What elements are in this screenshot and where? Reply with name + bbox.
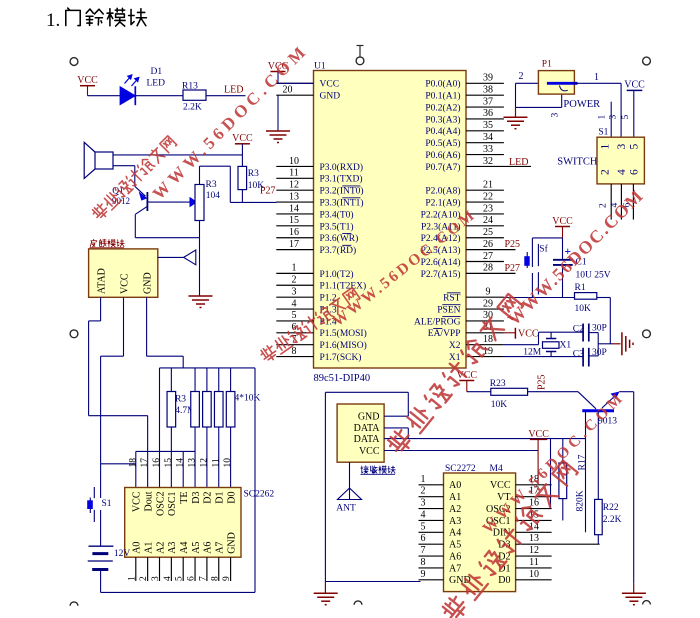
svg-text:A1: A1 bbox=[449, 492, 461, 503]
svg-text:PSEN: PSEN bbox=[437, 305, 460, 315]
VCC power symbol bbox=[459, 380, 474, 382]
U1 pin 3 P1.2 stub bbox=[276, 296, 313, 298]
SC2272 pin 13 D3 bbox=[516, 543, 600, 545]
svg-text:A5: A5 bbox=[449, 540, 461, 551]
svg-text:25: 25 bbox=[483, 227, 493, 238]
svg-text:13: 13 bbox=[188, 458, 198, 468]
SC2262 bottom pin 3 bbox=[159, 557, 161, 581]
wire VCC pin down bbox=[123, 297, 125, 356]
U1 pin 30 ALE/PROG stub bbox=[466, 320, 504, 322]
watermark 3 CN bbox=[386, 293, 524, 456]
wire right side of bus loop bbox=[254, 368, 256, 593]
svg-text:P0.2(A2): P0.2(A2) bbox=[425, 102, 460, 113]
SC2262 pin GND bbox=[226, 532, 237, 554]
watermark 1 WWW bbox=[149, 40, 312, 203]
svg-text:ATAD: ATAD bbox=[97, 268, 108, 294]
pin label 6 bbox=[623, 203, 633, 208]
svg-text:1: 1 bbox=[598, 115, 608, 120]
wire R1 right bbox=[597, 297, 611, 299]
svg-text:VCC: VCC bbox=[624, 79, 645, 90]
svg-text:VCC: VCC bbox=[552, 216, 573, 227]
wire col OSC2 bbox=[159, 368, 161, 488]
svg-text:ALE/PROG: ALE/PROG bbox=[414, 317, 461, 327]
U1 pin 24 P2.3(A11) stub bbox=[466, 225, 504, 227]
svg-text:VCC: VCC bbox=[528, 429, 549, 440]
svg-text:12M: 12M bbox=[523, 348, 542, 358]
svg-text:A0: A0 bbox=[449, 480, 461, 491]
marker ring bbox=[70, 602, 78, 606]
svg-text:SC2272: SC2272 bbox=[445, 464, 476, 474]
watermark 4 WWW bbox=[479, 388, 628, 537]
U1 pin 32 P0.7(A7) stub bbox=[466, 165, 531, 167]
wire VCC to R23 bbox=[467, 391, 491, 393]
svg-text:A6: A6 bbox=[449, 551, 461, 562]
SC2262 pin number 7 bbox=[198, 576, 208, 581]
diode D1 LED bbox=[120, 87, 135, 105]
SC2262 bottom pin 4 bbox=[170, 557, 172, 581]
svg-text:R22: R22 bbox=[603, 503, 619, 513]
connector P1 bbox=[538, 71, 574, 95]
svg-text:33: 33 bbox=[483, 144, 493, 155]
svg-text:X1: X1 bbox=[560, 341, 572, 351]
SC2262 pin VCC bbox=[132, 491, 143, 512]
svg-text:A3: A3 bbox=[449, 516, 461, 527]
wire pin20 to ground bbox=[277, 95, 279, 130]
SC2262 pin number 4 bbox=[163, 576, 173, 581]
crystal X1 bbox=[543, 342, 560, 349]
U1 pin 18 X2 stub bbox=[466, 344, 504, 346]
SC2262 bottom pin 6 bbox=[194, 557, 196, 581]
Q1 collector diagonal bbox=[135, 206, 147, 214]
marker ring bbox=[643, 601, 651, 605]
svg-text:7: 7 bbox=[421, 545, 426, 556]
svg-text:12: 12 bbox=[199, 458, 209, 468]
resistor R17 820K bbox=[562, 439, 564, 463]
svg-text:P2.1(A9): P2.1(A9) bbox=[425, 198, 460, 209]
svg-text:15: 15 bbox=[164, 458, 174, 468]
receive module box bbox=[337, 404, 384, 462]
U1 pin 22 P2.1(A9) stub bbox=[466, 201, 504, 203]
resistor R3 4.7M bbox=[170, 368, 172, 392]
SC2262 pin number 16 bbox=[152, 458, 162, 468]
SC2272 pin 8 A7 bbox=[419, 567, 444, 569]
SC2272 pin 4 A3 bbox=[419, 519, 444, 521]
svg-text:4*10K: 4*10K bbox=[235, 394, 261, 404]
svg-text:13: 13 bbox=[529, 533, 539, 544]
svg-text:GND: GND bbox=[358, 412, 380, 423]
wire X2 net bbox=[504, 344, 539, 346]
ground U1 GND pin20 bbox=[266, 131, 290, 143]
SC2262 pin number 9 bbox=[222, 576, 232, 581]
svg-text:U1: U1 bbox=[314, 62, 326, 72]
ground receive module bbox=[314, 593, 338, 605]
svg-text:P1.7(SCK): P1.7(SCK) bbox=[320, 352, 362, 363]
svg-text:P1: P1 bbox=[542, 60, 552, 70]
wire Q emitter to right rail bbox=[619, 391, 634, 393]
U1 pin 15 P3.5(T1) stub bbox=[276, 225, 313, 227]
wire emitter rail bbox=[135, 237, 199, 239]
U1 pin 1 P1.0(T2) stub bbox=[276, 272, 313, 274]
wire bottom to SC2272 GND bbox=[325, 581, 420, 583]
wire R13 to LED net bbox=[206, 95, 246, 97]
svg-text:A6: A6 bbox=[203, 542, 214, 554]
ground below Q1 bbox=[189, 296, 213, 308]
U1 pin 23 P2.2(A10) stub bbox=[466, 213, 504, 215]
svg-text:D0: D0 bbox=[226, 492, 237, 504]
svg-text:VCC: VCC bbox=[359, 446, 380, 457]
antenna ANT bbox=[349, 462, 351, 499]
wire DATA to VT/OSC2 bbox=[550, 439, 552, 509]
svg-text:9: 9 bbox=[486, 286, 491, 297]
LED arrows bbox=[125, 75, 139, 86]
pin label 4 bbox=[610, 203, 620, 208]
SC2262 pin A4 bbox=[179, 542, 190, 554]
svg-text:S1: S1 bbox=[102, 499, 112, 509]
svg-text:P3.0(RXD): P3.0(RXD) bbox=[320, 162, 364, 173]
svg-text:10: 10 bbox=[529, 569, 539, 580]
capacitor C2 bbox=[582, 324, 584, 342]
marker ring bbox=[70, 58, 78, 66]
svg-text:2: 2 bbox=[292, 275, 297, 286]
SC2262 pin number 3 bbox=[151, 576, 161, 581]
svg-text:15: 15 bbox=[289, 215, 299, 226]
svg-text:37: 37 bbox=[483, 96, 493, 107]
svg-text:4: 4 bbox=[292, 298, 297, 309]
svg-text:1.: 1. bbox=[46, 10, 60, 31]
wire R17 to OSC1 bbox=[562, 499, 564, 521]
svg-text:13: 13 bbox=[289, 191, 299, 202]
wire battery minus bbox=[100, 570, 102, 593]
S1 pin 1 bbox=[600, 144, 612, 150]
SC2272 pin 10 D0 bbox=[516, 579, 552, 581]
svg-text:LED: LED bbox=[224, 85, 243, 96]
watermark 1 CN bbox=[91, 135, 177, 221]
watermark 4 CN bbox=[440, 460, 578, 618]
svg-text:30: 30 bbox=[483, 310, 493, 321]
VCC power symbol bbox=[235, 143, 250, 145]
svg-text:6: 6 bbox=[421, 533, 426, 544]
transmit module box bbox=[89, 249, 158, 297]
arrow into R3 104 bbox=[190, 197, 198, 208]
svg-text:5: 5 bbox=[621, 115, 631, 120]
wire RST row bbox=[504, 297, 575, 299]
svg-text:EA/VPP: EA/VPP bbox=[428, 329, 461, 339]
svg-text:104: 104 bbox=[206, 191, 221, 201]
svg-text:Dout: Dout bbox=[143, 491, 154, 511]
U1 pin 7 P1.6(MISO) stub bbox=[276, 344, 313, 346]
wire VCC to S1 pin5 bbox=[633, 90, 635, 137]
svg-text:16: 16 bbox=[152, 458, 162, 468]
svg-text:SWITCH: SWITCH bbox=[557, 156, 598, 167]
SC2272 pin 12 D2 bbox=[516, 555, 552, 557]
wire Q1 base to R3 bbox=[147, 201, 190, 203]
svg-text:SC2262: SC2262 bbox=[244, 490, 275, 500]
pin label 1 bbox=[598, 115, 608, 120]
svg-text:GND: GND bbox=[320, 92, 341, 102]
wire to side ground bbox=[598, 343, 612, 345]
svg-text:36: 36 bbox=[483, 108, 493, 119]
svg-text:10: 10 bbox=[289, 156, 299, 167]
transistor Q 9013 bbox=[578, 392, 596, 409]
svg-text:P0.4(A4): P0.4(A4) bbox=[425, 126, 460, 137]
U1 pin 25 P2.4(A12) stub bbox=[466, 237, 504, 239]
SC2262 pin OSC2 bbox=[155, 492, 166, 516]
svg-text:5: 5 bbox=[175, 576, 185, 581]
svg-text:34: 34 bbox=[483, 132, 493, 143]
svg-text:P3.2(INT0): P3.2(INT0) bbox=[320, 186, 364, 197]
SC2272 pin 14 DIN bbox=[516, 531, 552, 533]
svg-text:P1.5(MOSI): P1.5(MOSI) bbox=[320, 328, 367, 339]
SC2262 pin TE bbox=[179, 492, 190, 504]
svg-text:A4: A4 bbox=[179, 542, 190, 554]
svg-text:P3.1(TXD): P3.1(TXD) bbox=[320, 174, 363, 185]
SC2262 pin number 15 bbox=[164, 458, 174, 468]
net label P25 rotated bbox=[537, 374, 548, 390]
SC2262 pin Dout bbox=[143, 491, 154, 511]
overline bbox=[342, 185, 360, 187]
svg-text:9: 9 bbox=[222, 576, 232, 581]
SC2262 pin A2 bbox=[155, 542, 166, 554]
transistor Q1 bbox=[135, 186, 146, 196]
svg-text:38: 38 bbox=[483, 84, 493, 95]
svg-text:21: 21 bbox=[483, 180, 493, 191]
overline bbox=[342, 232, 351, 234]
watermark 3 WWW bbox=[504, 185, 648, 329]
wire to U1 pin13 bbox=[230, 201, 276, 203]
wire speaker bottom bbox=[113, 165, 135, 167]
svg-text:D2: D2 bbox=[203, 492, 214, 504]
capacitor C3 bbox=[582, 348, 584, 367]
svg-text:P3.7(RD): P3.7(RD) bbox=[320, 245, 357, 256]
label 发射模块 transmit module bbox=[90, 239, 96, 247]
svg-text:20: 20 bbox=[283, 84, 293, 95]
wire col14 TE bbox=[182, 451, 184, 487]
SC2262 pin number 18 bbox=[128, 458, 138, 468]
U1 pin 29 PSEN stub bbox=[466, 308, 504, 310]
SC2262 bottom pin 1 bbox=[135, 557, 137, 581]
svg-text:R3: R3 bbox=[175, 395, 186, 405]
wire GND pin down bbox=[146, 297, 148, 356]
wire down to S1 switch bbox=[620, 83, 622, 137]
svg-text:2: 2 bbox=[599, 203, 609, 208]
svg-text:12: 12 bbox=[529, 545, 539, 556]
svg-text:1: 1 bbox=[594, 72, 599, 83]
SC2262 bottom pin 2 bbox=[147, 557, 149, 581]
svg-text:P2.7(A15): P2.7(A15) bbox=[421, 269, 461, 280]
SC2262 pin number 12 bbox=[199, 458, 209, 468]
U1 pin 10 P3.0(RXD) stub bbox=[276, 165, 313, 167]
SC2272 pin 16 OSC2 bbox=[516, 508, 552, 510]
S1 connection wire bbox=[101, 463, 136, 465]
R17 value bbox=[576, 490, 586, 511]
SC2262 pin D1 bbox=[215, 492, 226, 504]
svg-text:1: 1 bbox=[421, 474, 426, 485]
VCC power symbol bbox=[555, 226, 570, 228]
svg-text:2: 2 bbox=[519, 71, 524, 82]
U1 pin 28 P2.7(A15) stub bbox=[466, 272, 516, 274]
svg-text:A0: A0 bbox=[132, 542, 143, 554]
wire col17 Dout bbox=[147, 416, 149, 488]
R17 designator bbox=[578, 454, 588, 470]
ground sideways bbox=[613, 343, 621, 345]
S1 pin 3 bbox=[616, 144, 628, 150]
svg-text:A2: A2 bbox=[449, 504, 461, 515]
resistor R3 104 bbox=[195, 185, 204, 221]
svg-text:27: 27 bbox=[483, 251, 493, 262]
SC2262 pin number 6 bbox=[187, 576, 197, 581]
U1 pin 38 P0.1(A1) stub bbox=[466, 94, 504, 96]
SC2272 decoder chip bbox=[444, 473, 516, 592]
SC2262 pin A3 bbox=[167, 542, 178, 554]
svg-text:P1.0(T2): P1.0(T2) bbox=[320, 269, 354, 280]
wire R22 to D3 bbox=[597, 535, 599, 545]
svg-text:TE: TE bbox=[179, 492, 190, 504]
svg-text:R13: R13 bbox=[182, 81, 198, 91]
svg-text:10U 25V: 10U 25V bbox=[576, 271, 611, 281]
marker ring bbox=[70, 330, 78, 338]
wire speaker top to VCC node bbox=[113, 154, 242, 156]
svg-text:A4: A4 bbox=[449, 528, 461, 539]
svg-text:P1.6(MISO): P1.6(MISO) bbox=[320, 340, 367, 351]
svg-text:M4: M4 bbox=[490, 464, 503, 474]
svg-text:14: 14 bbox=[289, 203, 299, 214]
svg-text:22: 22 bbox=[483, 191, 493, 202]
svg-text:Sf: Sf bbox=[539, 244, 548, 255]
resistor R23 bbox=[491, 388, 528, 395]
svg-text:R3: R3 bbox=[248, 169, 259, 179]
switch S1 bbox=[100, 464, 102, 498]
svg-text:P3.3(INT1): P3.3(INT1) bbox=[320, 198, 364, 209]
wire left rail down bbox=[324, 392, 326, 581]
resistor 10K col5 bbox=[191, 392, 200, 428]
svg-text:6: 6 bbox=[187, 576, 197, 581]
watermark 2 WWW bbox=[330, 206, 480, 330]
svg-text:R23: R23 bbox=[490, 379, 506, 389]
wire TE col bbox=[136, 450, 195, 452]
S1 pin 2 bbox=[600, 169, 612, 175]
svg-text:C3: C3 bbox=[573, 350, 584, 360]
resistor R22 2.2K bbox=[595, 499, 603, 534]
marker ring bbox=[356, 57, 364, 65]
U1 pin 35 P0.4(A4) stub bbox=[466, 130, 504, 132]
marker ring bbox=[643, 330, 651, 338]
SC2262 bottom pin 7 bbox=[206, 557, 208, 581]
SC2262 encoder chip bbox=[125, 488, 241, 558]
watermark 2 CN bbox=[259, 287, 360, 364]
svg-text:P25: P25 bbox=[505, 239, 521, 250]
svg-text:17: 17 bbox=[289, 239, 299, 250]
marker ring bbox=[643, 57, 651, 65]
underline bbox=[90, 247, 125, 249]
svg-text:26: 26 bbox=[483, 239, 493, 250]
SC2262 pin number 10 bbox=[223, 458, 233, 468]
SC2262 bottom pin 9 bbox=[230, 557, 232, 581]
S1 pin 5 bbox=[629, 144, 641, 150]
overline bbox=[442, 304, 460, 306]
wire VCC to pin40 bbox=[276, 82, 313, 84]
VCC power symbol bbox=[271, 71, 286, 73]
svg-text:A3: A3 bbox=[167, 542, 178, 554]
svg-text:S1: S1 bbox=[598, 128, 608, 138]
wire to Q1 emitter bbox=[134, 166, 136, 187]
svg-text:11: 11 bbox=[211, 458, 221, 467]
svg-text:89c51-DIP40: 89c51-DIP40 bbox=[314, 373, 371, 384]
wire bottom rail bbox=[101, 591, 255, 593]
svg-text:24: 24 bbox=[483, 215, 493, 226]
svg-text:4: 4 bbox=[421, 509, 426, 520]
svg-text:C2: C2 bbox=[573, 325, 584, 335]
svg-text:P3.6(WR): P3.6(WR) bbox=[320, 233, 359, 244]
U1 pin 17 P3.7(RD) stub bbox=[276, 249, 313, 251]
SC2262 pin A5 bbox=[191, 542, 202, 554]
wire Q1 to emitter rail bbox=[134, 214, 136, 237]
wire R3 top bbox=[199, 166, 201, 184]
wire C1 bottom bbox=[562, 265, 564, 298]
bus wire GND net bbox=[160, 367, 256, 369]
svg-text:VCC: VCC bbox=[77, 75, 98, 86]
wire down to ground node bbox=[609, 298, 611, 344]
svg-text:3: 3 bbox=[292, 286, 297, 297]
U1 pin 27 P2.6(A14) stub bbox=[466, 261, 504, 263]
SC2262 pin number 1 bbox=[127, 576, 137, 581]
svg-text:16: 16 bbox=[289, 227, 299, 238]
wire R23 to Q base bbox=[528, 391, 578, 393]
svg-text:2: 2 bbox=[600, 169, 612, 175]
svg-text:DATA: DATA bbox=[354, 423, 381, 434]
ground P1 bbox=[504, 117, 528, 129]
wire Q to DIN bbox=[585, 411, 587, 533]
svg-text:P3.5(T1): P3.5(T1) bbox=[320, 221, 354, 232]
SC2272 pin 11 D1 bbox=[516, 567, 552, 569]
wire VCC to R3 10K bbox=[241, 144, 243, 167]
SC2262 pin D2 bbox=[203, 492, 214, 504]
svg-text:A7: A7 bbox=[215, 542, 226, 554]
svg-text:5: 5 bbox=[421, 521, 426, 532]
svg-text:7: 7 bbox=[198, 576, 208, 581]
SC2272 pin 17 VT bbox=[516, 496, 552, 498]
wire D1 to R13 bbox=[135, 95, 183, 97]
SC2262 pin number 13 bbox=[188, 458, 198, 468]
SC2262 pin OSC1 bbox=[167, 492, 178, 516]
svg-text:OSC2: OSC2 bbox=[155, 492, 166, 516]
SC2272 pin 18 VCC bbox=[516, 484, 552, 486]
svg-text:P0.6(A6): P0.6(A6) bbox=[425, 150, 460, 161]
Q1 base bar bbox=[146, 192, 148, 211]
svg-text:1: 1 bbox=[127, 576, 137, 581]
overline bbox=[433, 327, 442, 329]
svg-text:10: 10 bbox=[223, 458, 233, 468]
svg-text:6: 6 bbox=[629, 169, 641, 175]
wire VCC stem bbox=[537, 439, 539, 484]
svg-text:VCC: VCC bbox=[320, 80, 340, 90]
SC2262 bottom pin 8 bbox=[218, 557, 220, 581]
svg-text:X2: X2 bbox=[449, 341, 461, 351]
pin label 2 bbox=[599, 203, 609, 208]
svg-text:8: 8 bbox=[292, 346, 297, 357]
pin label 3 bbox=[551, 113, 561, 118]
svg-text:820K: 820K bbox=[576, 490, 586, 511]
SC2272 pin 1 A0 bbox=[419, 484, 444, 486]
svg-text:10K: 10K bbox=[491, 400, 508, 410]
svg-text:X1: X1 bbox=[449, 353, 461, 363]
U1 pin 4 P1.3 stub bbox=[276, 308, 313, 310]
wire over bbox=[200, 165, 231, 167]
S1 bottom stubs bbox=[610, 184, 612, 220]
power VCC to SC2272 pin18 bbox=[530, 438, 547, 440]
wire X1 net bbox=[504, 356, 583, 358]
wire caps to ground node bbox=[589, 332, 598, 334]
svg-text:R17: R17 bbox=[578, 454, 588, 470]
